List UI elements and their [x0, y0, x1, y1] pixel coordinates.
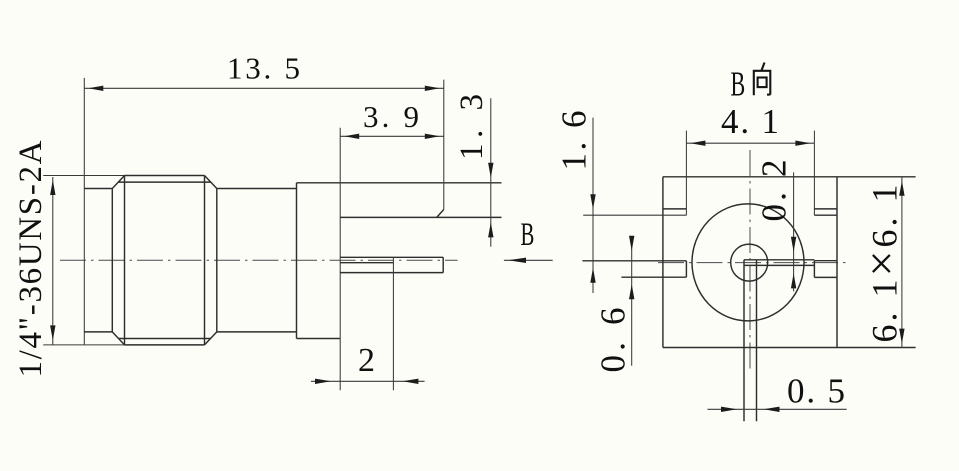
dimension 2 left arrow (outside): [315, 379, 331, 384]
svg-text:1/4"-36UNS-2A: 1/4"-36UNS-2A: [13, 140, 49, 377]
pin slot lower line (0.2): [744, 264, 814, 266]
hex top-right chamfer: [205, 176, 217, 189]
square flange outline bottom edge + 6.1 bottom extension: [663, 347, 916, 349]
side leg right end cap: [442, 257, 444, 272]
left side leg bottom line + 0.6 extension: [621, 276, 686, 278]
dimension 13.5 right arrow: [425, 86, 440, 91]
flange bottom edge: [297, 338, 341, 340]
pin step line / 2 right extension: [392, 257, 394, 390]
hex body left side edge: [111, 189, 113, 332]
dimension 3.9 right arrow: [425, 134, 440, 139]
dimension 0.6 line: [631, 236, 633, 366]
flange left edge: [296, 183, 298, 339]
svg-text:2: 2: [358, 342, 375, 379]
dimension 6.1x6.1 line: [901, 177, 903, 348]
B view horizontal centerline: [658, 262, 850, 264]
dimension 0.2 upper arrow (outside, pointing down): [791, 237, 796, 252]
connector left face / 13.5 left extension line: [83, 78, 85, 345]
svg-text:B: B: [731, 66, 746, 104]
right side leg bottom line: [814, 276, 837, 278]
barrel bottom edge: [217, 331, 297, 333]
hex flat left boundary: [124, 176, 126, 345]
barrel top edge: [217, 188, 297, 190]
outer barrel circle: [692, 204, 804, 321]
thread dimension line: [52, 177, 54, 345]
dimension 3.9 left arrow: [344, 134, 359, 139]
hex body top flat: [125, 175, 205, 177]
hex chamfer upper boundary line: [118, 181, 210, 183]
dimension 0.2 line: [793, 172, 795, 291]
hex bottom-left chamfer: [112, 332, 124, 345]
dimension 0.5 right arrow (outside, pointing left): [764, 407, 780, 412]
dimension 2 line: [311, 380, 425, 382]
front step top edge: [84, 188, 112, 190]
hex right side edge: [216, 189, 218, 332]
dimension 4.1 line: [686, 142, 814, 144]
thread dimension lower arrow: [50, 325, 55, 340]
left notch bottom line + 1.6 upper extension: [583, 214, 686, 216]
dimension 1.3 upper arrow: [488, 163, 493, 178]
hex chamfer lower boundary line: [118, 338, 210, 340]
dimension 6.1x6.1 upper arrow: [899, 181, 904, 196]
right side leg slot left edge: [813, 261, 815, 278]
front step bottom edge: [84, 331, 112, 333]
pin slot upper line (0.2): [744, 259, 814, 261]
hex top-left chamfer: [112, 176, 124, 189]
side leg bottom edge: [340, 272, 443, 274]
B view title: hand-drawn CJK glyph "xiang" (direction): [754, 63, 771, 96]
square flange outline right edge: [836, 177, 838, 348]
dimension 0.6 upper arrow (outside, pointing down): [629, 236, 634, 251]
dimension 2 right arrow (outside): [402, 379, 418, 384]
center pin left edge (vertical, going down): [743, 260, 745, 422]
thread dimension upper extension line: [43, 175, 124, 177]
left notch lower line: [663, 208, 687, 210]
svg-text:4. 1: 4. 1: [721, 102, 779, 141]
top leg right end edge / 13.5 + 3.9 right extension: [443, 80, 445, 210]
dimension 13.5 left arrow: [88, 86, 103, 91]
right side leg top line: [814, 260, 837, 262]
flange right edge / 3.9 left extension / 2 left extension: [339, 128, 341, 391]
dimension 4.1 right arrow: [795, 141, 810, 146]
dimension 1.3 line: [490, 98, 492, 247]
svg-text:B: B: [521, 215, 535, 252]
dimension 6.1x6.1 lower arrow: [899, 329, 904, 344]
dimension 0.5 left arrow (outside, pointing right): [721, 407, 737, 412]
thread dimension upper arrow: [50, 180, 55, 195]
square flange outline left edge: [662, 177, 664, 348]
dimension 1.6 line: [592, 118, 594, 293]
top leg end chamfer: [437, 210, 444, 218]
dimension 13.5 line: [84, 87, 444, 89]
flange top edge + top leg top edge + 1.3 top extension: [297, 182, 502, 184]
center pin right edge (vertical, going down): [756, 260, 758, 422]
dimension 1.6 lower arrow (outside, pointing up): [590, 268, 595, 283]
left notch vertical / 4.1 left extension: [685, 131, 687, 216]
dimension 1.6 upper arrow (outside, pointing down): [590, 194, 595, 209]
inner dielectric circle: [731, 244, 768, 281]
right notch vertical / 4.1 right extension: [813, 131, 815, 216]
dimension 4.1 left arrow: [690, 141, 705, 146]
left side leg top line + 0.6/1.6 extension: [582, 260, 686, 262]
left side leg slot inner cap: [685, 261, 687, 277]
dimension 1.3 lower arrow: [488, 222, 493, 237]
svg-text:13. 5: 13. 5: [227, 51, 300, 86]
dimension 0.5 line: [708, 408, 847, 410]
square flange outline top edge + 6.1 top extension: [663, 176, 916, 178]
thread dimension lower extension line: [43, 344, 124, 346]
center pin bottom edge (0.2 thick part): [340, 262, 393, 264]
hex bottom-right chamfer: [205, 332, 217, 345]
dimension 3.9 line: [340, 135, 444, 137]
svg-text:0. 5: 0. 5: [787, 372, 845, 411]
top leg bottom edge + 1.3 bottom extension: [340, 216, 501, 218]
B view vertical centerline: [749, 150, 751, 370]
centerline left view: [60, 259, 458, 261]
section view direction arrow: [504, 259, 553, 261]
dimension 0.6 lower arrow (outside, pointing up): [629, 284, 634, 299]
right notch bottom line: [814, 214, 837, 216]
center pin top edge: [340, 256, 443, 258]
dimension 0.2 lower arrow (outside, pointing up): [791, 273, 796, 288]
hex body bottom flat: [125, 344, 205, 346]
hex flat right boundary: [204, 176, 206, 345]
right notch lower line: [814, 208, 837, 210]
